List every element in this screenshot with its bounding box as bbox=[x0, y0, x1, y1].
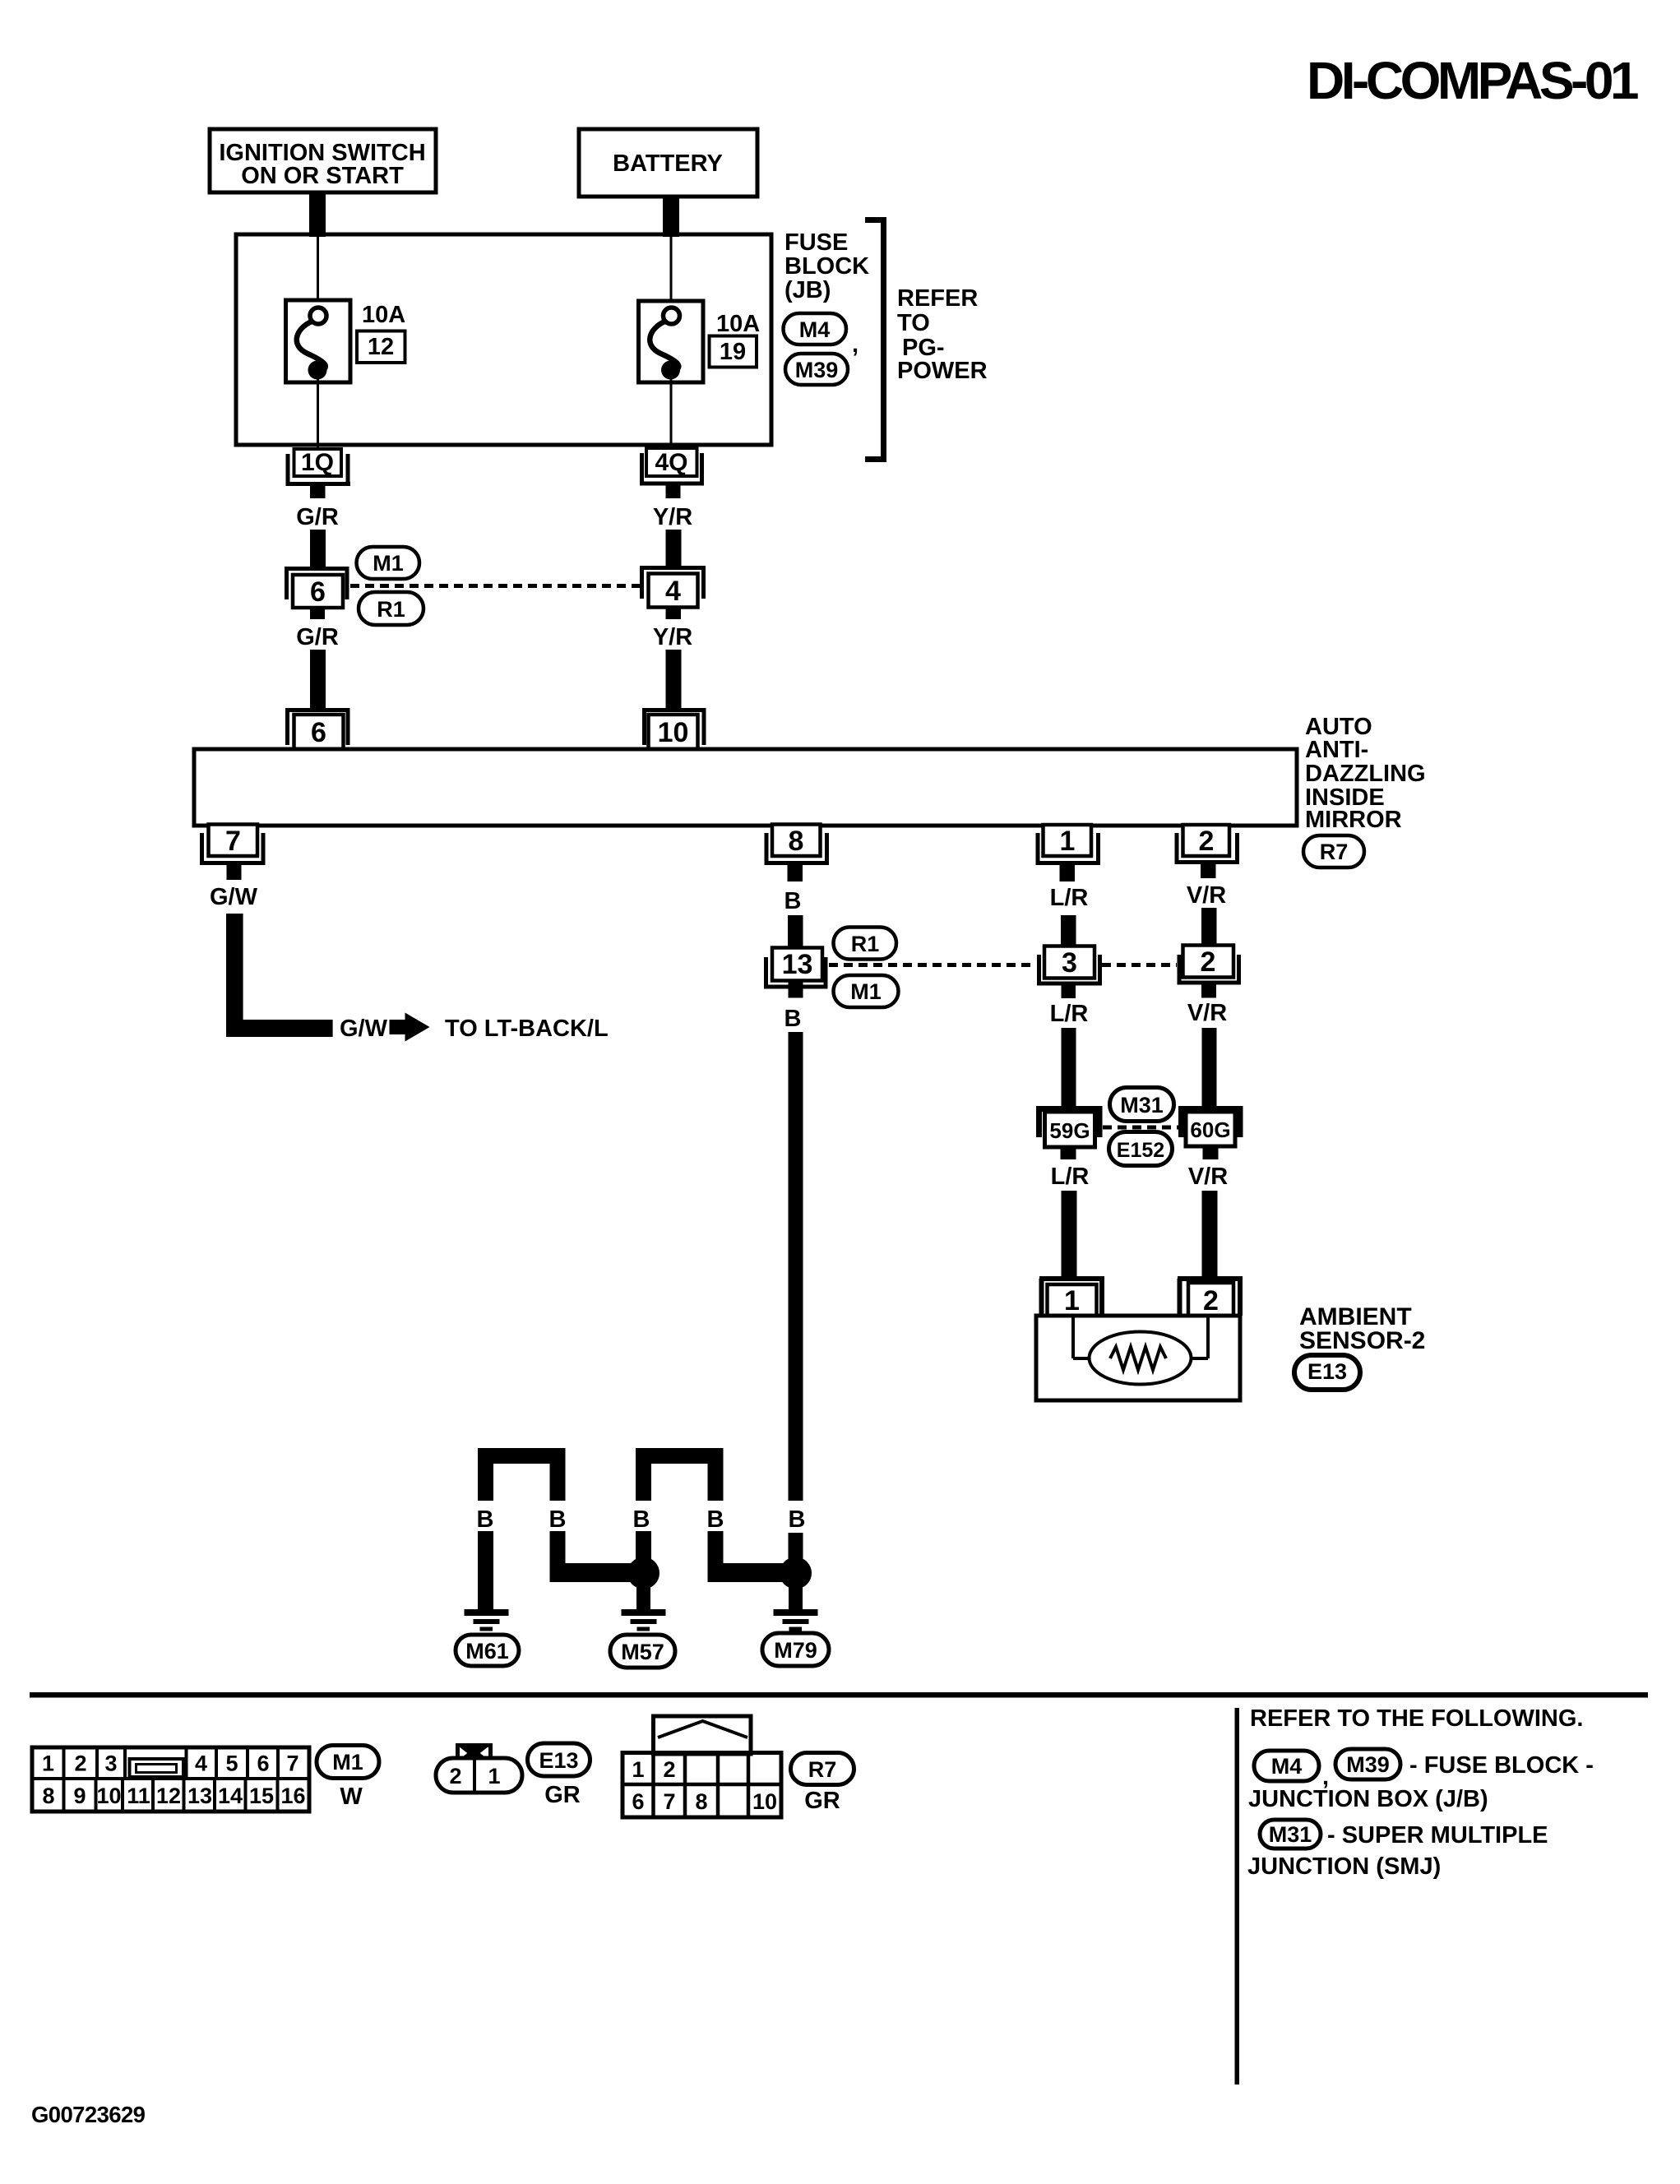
mirror connector 7 bbox=[200, 825, 266, 866]
dashed line 3 to 2 bbox=[1102, 963, 1177, 967]
svg-text:60G: 60G bbox=[1190, 1117, 1230, 1142]
svg-text:E13: E13 bbox=[1307, 1359, 1347, 1384]
svg-text:R7: R7 bbox=[808, 1757, 837, 1782]
svg-text:G00723629: G00723629 bbox=[31, 2102, 146, 2127]
svg-text:4Q: 4Q bbox=[655, 449, 687, 476]
svg-text:M4: M4 bbox=[1271, 1754, 1303, 1779]
svg-text:GR: GR bbox=[544, 1782, 581, 1808]
mirror connector 10 bbox=[645, 708, 705, 749]
svg-text:2: 2 bbox=[663, 1757, 675, 1782]
stub below in-line 2 bbox=[1201, 985, 1216, 998]
svg-text:7: 7 bbox=[663, 1789, 675, 1814]
oval R7 footer bbox=[791, 1753, 854, 1785]
svg-text:E152: E152 bbox=[1117, 1139, 1164, 1162]
oval M1 at 13 bbox=[834, 975, 899, 1007]
svg-text:R7: R7 bbox=[1320, 840, 1349, 864]
wire Y/R to mirror connector 10 bbox=[666, 650, 682, 710]
oval R1 at 13 bbox=[834, 928, 897, 960]
svg-text:19: 19 bbox=[720, 339, 746, 365]
thermistor ellipse bbox=[1090, 1332, 1192, 1385]
wire leg4 upper bbox=[708, 1464, 724, 1501]
label REFER TO PG-POWER bbox=[897, 285, 988, 384]
wire leg2 elbow into M57 junction bbox=[550, 1531, 632, 1582]
wire into fuse 19 bbox=[670, 236, 673, 309]
oval M1 upper bbox=[357, 547, 420, 579]
junction dot M79 bbox=[780, 1557, 812, 1589]
svg-text:5: 5 bbox=[225, 1751, 238, 1776]
svg-text:Y/R: Y/R bbox=[653, 624, 692, 650]
svg-text:V/R: V/R bbox=[1187, 882, 1226, 909]
connector 1Q at fuse block bbox=[286, 449, 351, 486]
in-line connector 6 (M1/R1) bbox=[287, 567, 348, 608]
svg-text:MIRROR: MIRROR bbox=[1305, 807, 1402, 833]
svg-text:6: 6 bbox=[310, 576, 326, 608]
svg-text:Y/R: Y/R bbox=[653, 504, 692, 530]
svg-text:ANTI-: ANTI- bbox=[1305, 737, 1368, 763]
ground symbol M61 bbox=[465, 1613, 509, 1629]
stub below M79 dot bbox=[789, 1585, 803, 1613]
svg-text:JUNCTION BOX (J/B): JUNCTION BOX (J/B) bbox=[1248, 1786, 1488, 1812]
svg-text:M1: M1 bbox=[332, 1750, 363, 1774]
connector ref M4 oval bbox=[784, 313, 847, 345]
oval M4 footer bbox=[1254, 1751, 1319, 1781]
mirror connector 6 bbox=[288, 708, 349, 749]
SMJ connector 59G (M31/E152) bbox=[1039, 1106, 1100, 1147]
svg-text:10: 10 bbox=[658, 717, 689, 748]
oval E152 bbox=[1109, 1132, 1173, 1166]
svg-text:10A: 10A bbox=[362, 302, 405, 328]
svg-text:M1: M1 bbox=[373, 551, 404, 576]
bracket refer to pg-power bbox=[865, 217, 886, 462]
svg-text:ON OR START: ON OR START bbox=[241, 163, 404, 189]
fuse number 12 box bbox=[357, 331, 405, 363]
wire 2 to 2 bbox=[1201, 908, 1217, 948]
svg-text:E13: E13 bbox=[539, 1748, 578, 1773]
svg-text:REFER: REFER bbox=[897, 285, 978, 312]
wire M61 leg lower to ground bbox=[478, 1531, 493, 1613]
svg-text:POWER: POWER bbox=[897, 358, 988, 384]
svg-text:M57: M57 bbox=[621, 1640, 664, 1664]
svg-text:G/W: G/W bbox=[210, 884, 258, 910]
svg-text:G/R: G/R bbox=[296, 624, 339, 650]
ground U-link M57 right bbox=[636, 1448, 724, 1464]
wire M61 leg upper bbox=[478, 1464, 493, 1501]
svg-text:2: 2 bbox=[1203, 1285, 1219, 1316]
stub below 1Q bbox=[310, 484, 326, 498]
wire ignition to fuse block bbox=[309, 191, 326, 237]
svg-text:1: 1 bbox=[1060, 826, 1076, 857]
oval R7 bbox=[1303, 835, 1364, 868]
oval R1 upper bbox=[359, 592, 423, 625]
dashed line 13 to 3 bbox=[829, 963, 1036, 967]
svg-text:BATTERY: BATTERY bbox=[613, 150, 723, 177]
svg-text:2: 2 bbox=[1201, 946, 1216, 978]
svg-text:L/R: L/R bbox=[1050, 1001, 1089, 1027]
wire 1 to 3 bbox=[1061, 915, 1076, 948]
svg-text:B: B bbox=[789, 1506, 806, 1533]
svg-text:REFER TO THE FOLLOWING.: REFER TO THE FOLLOWING. bbox=[1250, 1705, 1583, 1732]
wire leg3 upper bbox=[636, 1464, 651, 1501]
svg-text:1Q: 1Q bbox=[301, 449, 334, 476]
stub below 60G bbox=[1203, 1146, 1219, 1159]
svg-text:8: 8 bbox=[695, 1789, 707, 1814]
stub below 59G bbox=[1061, 1147, 1076, 1159]
stub below connector 4 bbox=[666, 608, 682, 619]
svg-text:G/W: G/W bbox=[340, 1016, 388, 1042]
svg-text:12: 12 bbox=[156, 1784, 181, 1808]
label FUSE BLOCK (JB) bbox=[784, 229, 869, 303]
svg-text:W: W bbox=[340, 1784, 363, 1810]
svg-text:1: 1 bbox=[632, 1757, 644, 1782]
svg-text:M79: M79 bbox=[774, 1638, 817, 1663]
oval M57 bbox=[610, 1635, 675, 1668]
stub below 4Q bbox=[666, 484, 681, 498]
svg-text:11: 11 bbox=[127, 1784, 150, 1808]
svg-text:B: B bbox=[549, 1506, 567, 1533]
svg-text:M61: M61 bbox=[465, 1639, 509, 1663]
svg-text:SENSOR-2: SENSOR-2 bbox=[1299, 1327, 1425, 1354]
svg-text:R1: R1 bbox=[377, 597, 405, 622]
footer separator line bbox=[30, 1692, 1648, 1698]
junction dot M57 bbox=[627, 1557, 660, 1589]
svg-text:2: 2 bbox=[74, 1751, 86, 1776]
svg-text:8: 8 bbox=[789, 826, 804, 857]
svg-text:4: 4 bbox=[665, 576, 681, 607]
oval M39 footer bbox=[1335, 1749, 1400, 1779]
in-line connector 13 (R1/M1) bbox=[764, 948, 828, 989]
svg-text:M39: M39 bbox=[1346, 1752, 1390, 1777]
svg-text:- FUSE BLOCK -: - FUSE BLOCK - bbox=[1409, 1752, 1594, 1779]
label AMBIENT SENSOR-2 bbox=[1299, 1303, 1425, 1354]
in-line connector 4 (M1/R1) bbox=[642, 566, 704, 608]
svg-text:DI-COMPAS-01: DI-COMPAS-01 bbox=[1307, 51, 1638, 110]
fuse number 19 box bbox=[710, 336, 757, 368]
wire 3 to 59G bbox=[1062, 1028, 1076, 1107]
label AUTO ANTI-DAZZLING INSIDE MIRROR bbox=[1305, 714, 1426, 833]
mirror connector 1 bbox=[1036, 825, 1101, 865]
footer connector R7 bbox=[622, 1716, 781, 1817]
svg-text:13: 13 bbox=[187, 1784, 212, 1808]
stub below 1 bbox=[1060, 865, 1076, 881]
svg-text:V/R: V/R bbox=[1188, 1164, 1228, 1190]
svg-text:2: 2 bbox=[449, 1764, 461, 1788]
svg-text:13: 13 bbox=[782, 949, 813, 980]
stub below 2 bbox=[1201, 864, 1216, 878]
in-line connector 3 (R1/M1) bbox=[1037, 946, 1102, 986]
svg-text:B: B bbox=[477, 1506, 494, 1533]
svg-text:10: 10 bbox=[752, 1789, 777, 1814]
oval E13 bbox=[1294, 1355, 1360, 1390]
fuse 19 (10A) bbox=[639, 301, 704, 382]
long B wire from 13 to ground junction bbox=[789, 1032, 803, 1501]
wire 60G to sensor pin 2 bbox=[1202, 1191, 1218, 1279]
svg-text:R1: R1 bbox=[851, 932, 880, 956]
svg-text:B: B bbox=[707, 1506, 724, 1533]
svg-text:2: 2 bbox=[1199, 826, 1215, 857]
arrow to LT-BACK/L bbox=[390, 1013, 430, 1042]
svg-text:TO: TO bbox=[897, 310, 930, 336]
dashed line between 6 and 4 bbox=[350, 584, 640, 588]
svg-text:B: B bbox=[784, 1006, 802, 1032]
wire 8 to 13 bbox=[788, 915, 803, 949]
svg-text:1: 1 bbox=[488, 1764, 500, 1788]
svg-text:- SUPER MULTIPLE: - SUPER MULTIPLE bbox=[1327, 1822, 1548, 1849]
wire fuse 12 to 1Q bbox=[317, 378, 319, 451]
svg-text:JUNCTION (SMJ): JUNCTION (SMJ) bbox=[1247, 1853, 1441, 1880]
G/W wire L-shape to arrow bbox=[226, 914, 333, 1037]
svg-text:12: 12 bbox=[368, 334, 394, 360]
svg-text:L/R: L/R bbox=[1050, 885, 1089, 911]
svg-text:3: 3 bbox=[104, 1751, 117, 1776]
oval M61 bbox=[456, 1635, 519, 1666]
wire 2 to 60G bbox=[1202, 1028, 1217, 1107]
wire Y/R to connector 4 bbox=[666, 530, 682, 567]
svg-text:7: 7 bbox=[225, 826, 241, 857]
svg-text:GR: GR bbox=[804, 1788, 840, 1814]
stub below 8 bbox=[788, 865, 803, 881]
svg-text:4: 4 bbox=[195, 1751, 207, 1776]
svg-text:G/R: G/R bbox=[296, 504, 339, 530]
latch slot in M1 grid bbox=[130, 1759, 184, 1777]
ambient sensor-2 box bbox=[1036, 1316, 1240, 1400]
wire leg4 elbow into M79 junction bbox=[708, 1531, 789, 1582]
svg-text:7: 7 bbox=[286, 1751, 299, 1776]
ground symbol M79 bbox=[774, 1613, 818, 1629]
svg-text:M39: M39 bbox=[795, 358, 839, 382]
svg-text:FUSE: FUSE bbox=[784, 229, 848, 256]
SMJ connector 60G (M31/E152) bbox=[1182, 1106, 1241, 1146]
svg-text:6: 6 bbox=[632, 1789, 644, 1814]
svg-text:6: 6 bbox=[311, 717, 326, 748]
svg-text:DAZZLING: DAZZLING bbox=[1305, 761, 1426, 787]
svg-text:15: 15 bbox=[249, 1784, 274, 1808]
svg-text:59G: 59G bbox=[1049, 1118, 1090, 1143]
stub below connector 6 bbox=[310, 608, 325, 619]
svg-text:M1: M1 bbox=[850, 979, 882, 1004]
svg-text:B: B bbox=[784, 888, 802, 914]
svg-text:10: 10 bbox=[96, 1784, 121, 1808]
mirror connector 8 bbox=[765, 825, 830, 866]
wire into fuse 12 bbox=[317, 236, 319, 309]
svg-text:(JB): (JB) bbox=[784, 277, 831, 303]
svg-text:9: 9 bbox=[73, 1784, 86, 1808]
wire battery to fuse block bbox=[663, 195, 679, 237]
sensor connector 2 bbox=[1178, 1279, 1243, 1316]
mirror connector 2 bbox=[1175, 825, 1240, 864]
connector 4Q at fuse block bbox=[640, 448, 704, 485]
svg-text:1: 1 bbox=[1064, 1285, 1080, 1316]
ignition switch box bbox=[210, 129, 436, 192]
stub below 7 bbox=[227, 865, 242, 880]
footer right divider bbox=[1235, 1708, 1240, 2085]
svg-text:TO LT-BACK/L: TO LT-BACK/L bbox=[445, 1016, 609, 1042]
wire G/R to mirror connector 6 bbox=[310, 650, 326, 710]
svg-text:M31: M31 bbox=[1120, 1093, 1164, 1117]
ground U-link M61 left bbox=[478, 1448, 566, 1464]
svg-text:1: 1 bbox=[42, 1751, 54, 1776]
oval M79 bbox=[762, 1633, 829, 1666]
footer connector M1 grid bbox=[32, 1747, 309, 1812]
svg-text:M4: M4 bbox=[799, 317, 831, 342]
oval M31 footer bbox=[1260, 1820, 1321, 1849]
svg-text:,: , bbox=[852, 331, 859, 358]
oval E13 footer bbox=[528, 1743, 590, 1776]
svg-text:8: 8 bbox=[42, 1784, 54, 1808]
sensor connector 1 bbox=[1039, 1279, 1104, 1316]
wire leg3 into junction bbox=[636, 1531, 651, 1568]
stub below M57 dot bbox=[636, 1585, 650, 1613]
auto anti-dazzling inside mirror box bbox=[194, 749, 1297, 826]
fuse block (JB) box bbox=[236, 234, 771, 445]
svg-text:V/R: V/R bbox=[1187, 1000, 1227, 1026]
svg-text:M31: M31 bbox=[1269, 1822, 1312, 1847]
svg-text:6: 6 bbox=[257, 1751, 269, 1776]
svg-text:B: B bbox=[633, 1506, 650, 1533]
in-line connector 2 (R1/M1) bbox=[1178, 946, 1242, 985]
svg-text:L/R: L/R bbox=[1051, 1164, 1090, 1190]
wire leg2 upper bbox=[550, 1464, 566, 1501]
svg-text:10A: 10A bbox=[716, 311, 760, 337]
svg-text:14: 14 bbox=[218, 1784, 243, 1808]
wire fuse 19 to 4Q bbox=[670, 378, 673, 451]
oval M31 bbox=[1110, 1088, 1174, 1122]
dashed line 59G to 60G bbox=[1103, 1126, 1178, 1130]
stub below 3 bbox=[1062, 986, 1076, 999]
ground symbol M57 bbox=[622, 1613, 666, 1629]
connector ref M39 oval bbox=[785, 354, 848, 385]
wire G/R to connector 6 bbox=[310, 530, 326, 568]
thermistor zigzag bbox=[1110, 1347, 1166, 1370]
wire 59G to sensor pin 1 bbox=[1062, 1191, 1077, 1279]
svg-text:16: 16 bbox=[280, 1784, 305, 1808]
svg-text:BLOCK: BLOCK bbox=[784, 253, 869, 280]
fuse 12 (10A) bbox=[286, 300, 351, 382]
oval M1 footer bbox=[317, 1746, 379, 1779]
footer connector E13 bbox=[436, 1746, 522, 1793]
svg-text:3: 3 bbox=[1062, 947, 1077, 979]
stub below 13 bbox=[789, 981, 803, 998]
battery box bbox=[579, 129, 757, 197]
